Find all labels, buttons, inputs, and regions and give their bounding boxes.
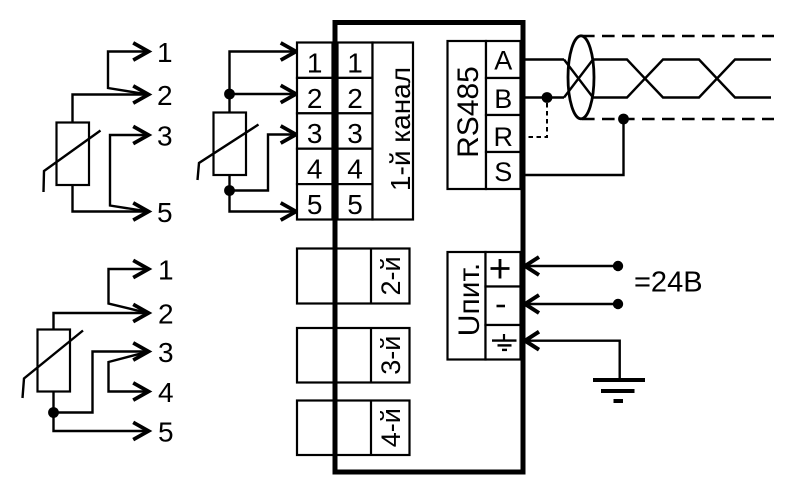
wire B to twisted pair: [526, 96, 565, 98]
pin numbers column 2: [347, 47, 363, 220]
wire +24V to terminal plus: [527, 265, 618, 267]
svg-text:1-й канал: 1-й канал: [385, 67, 416, 191]
arrow head into cell 3: [281, 126, 296, 143]
svg-text:2: 2: [157, 80, 173, 111]
svg-text:4: 4: [158, 377, 174, 408]
arrow head into minus: [525, 295, 539, 313]
wire jumper 1-2 with arrow 1: [108, 52, 146, 95]
wire arrow into terminal 1: [230, 52, 293, 95]
wire jumper 1-2 with arrow 1: [109, 269, 147, 313]
RS485 terminal cells A B R S: [486, 41, 521, 189]
svg-text:2-й: 2-й: [376, 256, 406, 295]
RTD sensor RK1 (top-left, 2-wire) body: [44, 123, 101, 193]
arrow head terminal 1 (left group): [133, 43, 148, 60]
node dot junction top: [224, 89, 235, 100]
svg-text:5: 5: [347, 189, 363, 220]
svg-text:4: 4: [307, 154, 323, 185]
minus sign: [497, 305, 506, 308]
svg-text:3: 3: [347, 118, 363, 149]
svg-text:4: 4: [347, 154, 363, 185]
wire earth terminal to ground: [527, 341, 620, 378]
wire dot to arrow 3: [54, 352, 146, 413]
wire arrow into terminal 2: [230, 93, 293, 95]
channel 4 terminal group: [297, 401, 410, 456]
svg-text:1: 1: [307, 47, 323, 78]
wire sensor RK3 bottom to dot: [52, 392, 54, 413]
arrow head terminal 1 (bottom group): [133, 260, 148, 277]
arrow head into plus: [525, 257, 539, 275]
svg-text:3-й: 3-й: [376, 336, 406, 375]
node dot junction RK3: [48, 407, 59, 418]
svg-text:Uпит.: Uпит.: [453, 263, 486, 336]
terminal block channel 1 column 2 cells: [338, 43, 373, 220]
node dot 0V: [613, 299, 623, 309]
svg-text:S: S: [494, 157, 512, 187]
plus sign: [491, 259, 510, 279]
pin numbers column 1: [307, 47, 323, 220]
arrow head terminal 5 (left group): [133, 203, 148, 220]
svg-text:=24В: =24В: [634, 267, 703, 299]
wire A to twisted pair: [526, 58, 565, 60]
twisted pair wire 1: [593, 60, 771, 98]
arrow head terminal 2 (left group): [133, 86, 148, 103]
twisted pair crossover in cable entry: [564, 60, 593, 98]
functional earth symbol in cell: [503, 334, 505, 340]
arrow head terminal 3 (left group): [133, 126, 148, 143]
svg-text:3: 3: [158, 337, 174, 368]
node dot +24V: [613, 261, 623, 271]
node dot on shield: [618, 114, 629, 125]
channel 3 terminal group: [297, 328, 410, 383]
arrow head into cell 2: [281, 85, 296, 102]
wire sensor RK3 top to arrow 2: [54, 313, 146, 330]
arrow head terminal 4 (bottom group): [133, 383, 148, 400]
svg-text:1: 1: [158, 255, 174, 286]
wire 0V to terminal minus: [527, 303, 618, 305]
svg-text:RS485: RS485: [452, 66, 485, 158]
wire dot to terminal 3: [230, 135, 293, 191]
svg-text:1: 1: [347, 47, 363, 78]
RS485 label box: [448, 41, 487, 189]
wire sensor RK1 bottom to arrow 5: [73, 185, 146, 212]
arrow head terminal 3 (bottom group): [133, 343, 148, 360]
wire sensor RK1 top to arrow 2: [73, 95, 146, 123]
svg-text:1: 1: [157, 37, 173, 68]
wire sensor bottom to dot: [228, 175, 230, 191]
arrow head into cell 5: [281, 203, 296, 220]
arrow head into cell 1: [281, 43, 296, 60]
svg-text:3: 3: [157, 121, 173, 152]
svg-text:2: 2: [347, 83, 363, 114]
RTD sensor RK3 (bottom-left, 4-wire) body: [23, 330, 84, 399]
svg-text:3: 3: [307, 118, 323, 149]
RTD sensor RK2 (middle, 3-wire) body: [198, 113, 259, 181]
svg-text:5: 5: [157, 197, 173, 228]
cable shield dashed bottom: [582, 118, 774, 121]
svg-text:R: R: [493, 122, 513, 152]
ground symbol: [593, 380, 645, 401]
wire jumper 3-5 with arrow 3: [110, 135, 146, 211]
wire jumper 4-3 with arrow 4: [109, 352, 147, 391]
twisted pair wire 2: [593, 60, 771, 98]
node dot junction bottom: [224, 185, 235, 196]
svg-text:B: B: [494, 84, 512, 114]
svg-text:2: 2: [158, 299, 174, 330]
arrow head into earth terminal: [525, 332, 539, 350]
svg-text:2: 2: [307, 83, 323, 114]
power terminal cells: [486, 252, 521, 360]
dashed wire dot to terminal R: [521, 103, 547, 137]
wire dot to terminal 5: [230, 191, 293, 212]
node dot on wire B: [542, 92, 553, 103]
channel 2 terminal group: [297, 249, 410, 304]
svg-text:A: A: [494, 45, 512, 75]
device outline: [335, 23, 523, 473]
wire terminal S to shield: [526, 119, 624, 175]
terminal block channel 1 column 1 cells: [297, 43, 333, 220]
Uпит label box: [448, 252, 486, 360]
svg-text:5: 5: [307, 189, 323, 220]
svg-text:4-й: 4-й: [376, 408, 406, 447]
wire dot to sensor top: [228, 94, 230, 113]
svg-text:5: 5: [158, 417, 174, 448]
arrow head terminal 5 (bottom group): [133, 422, 148, 439]
cable shield dashed top: [582, 35, 774, 38]
arrow head terminal 2 (bottom group): [133, 304, 148, 321]
cable entry ellipse: [568, 36, 594, 119]
wire dot to arrow 5: [54, 413, 146, 432]
channel 1 label box: [373, 43, 414, 220]
